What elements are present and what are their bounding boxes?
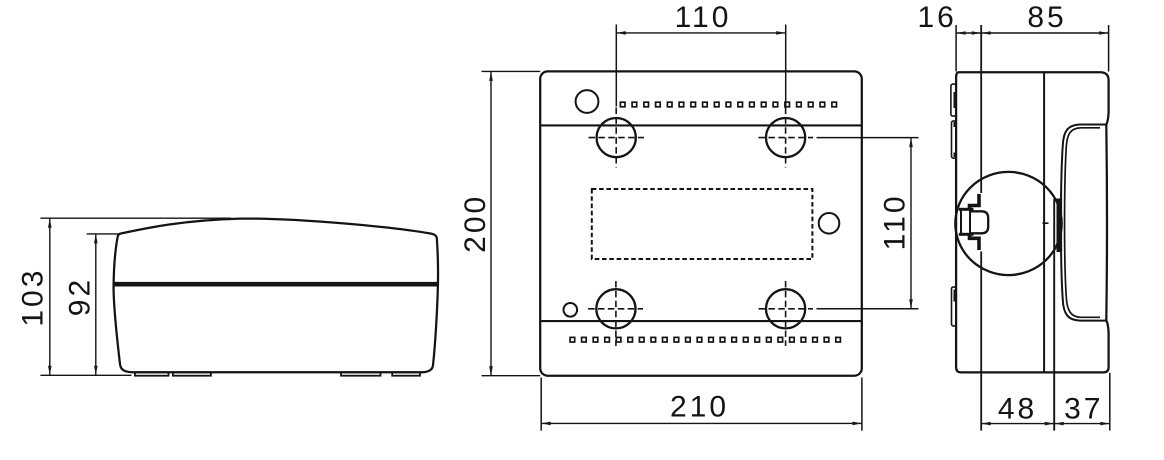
svg-text:200: 200 (459, 194, 492, 253)
svg-text:110: 110 (675, 1, 732, 34)
rear view: top-right mounting hole (766, 118, 805, 157)
rear view: bottom-right mounting hole (766, 289, 805, 328)
profile view: center tick on separation line (1043, 222, 1049, 224)
left side view: lid seam thick line (113, 282, 438, 287)
left side view: foot 2 (173, 372, 211, 375)
svg-text:103: 103 (17, 268, 50, 327)
dimension 92: dimension line (95, 234, 97, 375)
dimension 210: extension lines (541, 378, 862, 431)
profile view: DIN-rail clip bottom hook (970, 234, 980, 250)
profile view: DIN-rail clip web lines (961, 210, 970, 234)
profile view: upper wall tab 1 thick mark (953, 92, 956, 108)
profile view: rear 16mm step line (upper part) (980, 25, 982, 193)
profile view: DIN-rail clip bottom rail (959, 233, 974, 236)
dimension 85: right extension line (1108, 25, 1110, 72)
left side view: foot 1 (135, 372, 169, 375)
dimension 92: extension line (87, 233, 119, 235)
dimension 16: dimension line (956, 32, 981, 34)
svg-text:110: 110 (878, 193, 911, 250)
dimension 110 (top): extension lines (616, 25, 785, 107)
dimension 200: dimension line (490, 71, 492, 375)
profile view: lower wall tab (952, 287, 957, 326)
profile view: base/lid separation line (1043, 72, 1045, 372)
profile view: upper wall tab 2 thick marks (953, 122, 956, 157)
dimension 16: extension line (955, 25, 957, 72)
dimension 110 (right): dimension line (910, 138, 912, 309)
dimension 48: dimension line (981, 423, 1054, 425)
profile view: DIN-rail clip top hook (970, 194, 980, 210)
left side view: enclosure outline (114, 219, 438, 373)
dimension 103: extension lines (40, 218, 231, 375)
left side view: foot 4 (392, 372, 420, 375)
profile view: lid parting plane line (continues as extension) (1053, 199, 1055, 431)
rear view: top-left mounting hole (597, 118, 636, 157)
left side view: foot 3 (341, 372, 381, 375)
rear view: lower horizontal parting line (540, 320, 862, 322)
svg-text:85: 85 (1027, 1, 1066, 34)
profile view: lid front face outer rim (1061, 125, 1106, 321)
rear view: bottom-left small hole (564, 303, 578, 317)
svg-text:92: 92 (63, 277, 96, 316)
rear view: right middle round opening (819, 213, 840, 234)
rear view: top ventilation dot row (620, 102, 625, 107)
dimension 200: extension lines (482, 71, 541, 375)
profile view: lid parting seal thick segment (1057, 199, 1063, 253)
rear view: top-left round opening (576, 90, 599, 113)
svg-text:210: 210 (670, 390, 729, 423)
rear view: outer body rounded rectangle (540, 71, 862, 375)
profile view: outer body outline (956, 72, 1109, 372)
profile view: upper wall tab 2 (952, 121, 957, 158)
profile view: lower wall tab thick mark (953, 290, 956, 302)
rear view: bottom ventilation dot row (570, 337, 575, 342)
profile view: upper wall tab 1 (951, 84, 956, 116)
svg-text:37: 37 (1064, 393, 1103, 426)
svg-text:48: 48 (998, 393, 1037, 426)
rear view: central dashed cable-entry rectangle (592, 189, 813, 259)
dimension 110 (top): dimension line (616, 32, 785, 34)
svg-text:16: 16 (918, 1, 957, 34)
rear view: centerlines of top mounting holes (589, 108, 814, 168)
profile view: DIN-rail clip top rail (959, 208, 974, 211)
dimension 37: right extension line (1109, 373, 1111, 431)
dimension 103: dimension line (49, 218, 51, 375)
dimension 37: dimension line (1054, 423, 1110, 425)
rear view: bottom-left mounting hole (596, 289, 635, 328)
profile view: detail magnifier circle (955, 172, 1061, 275)
dimension 85: dimension line (981, 32, 1108, 34)
profile view: rear 16mm step line (lower part, continues as extension) (980, 252, 982, 431)
dimension 210: dimension line (541, 422, 862, 424)
profile view: DIN-rail clip spring loop (971, 211, 988, 233)
rear view: centerlines of bottom mounting holes (588, 281, 813, 346)
dimension 110 (right): extension lines (817, 138, 919, 309)
rear view: upper horizontal parting line (540, 124, 862, 126)
profile view: lid front face inner rim (1065, 128, 1100, 317)
